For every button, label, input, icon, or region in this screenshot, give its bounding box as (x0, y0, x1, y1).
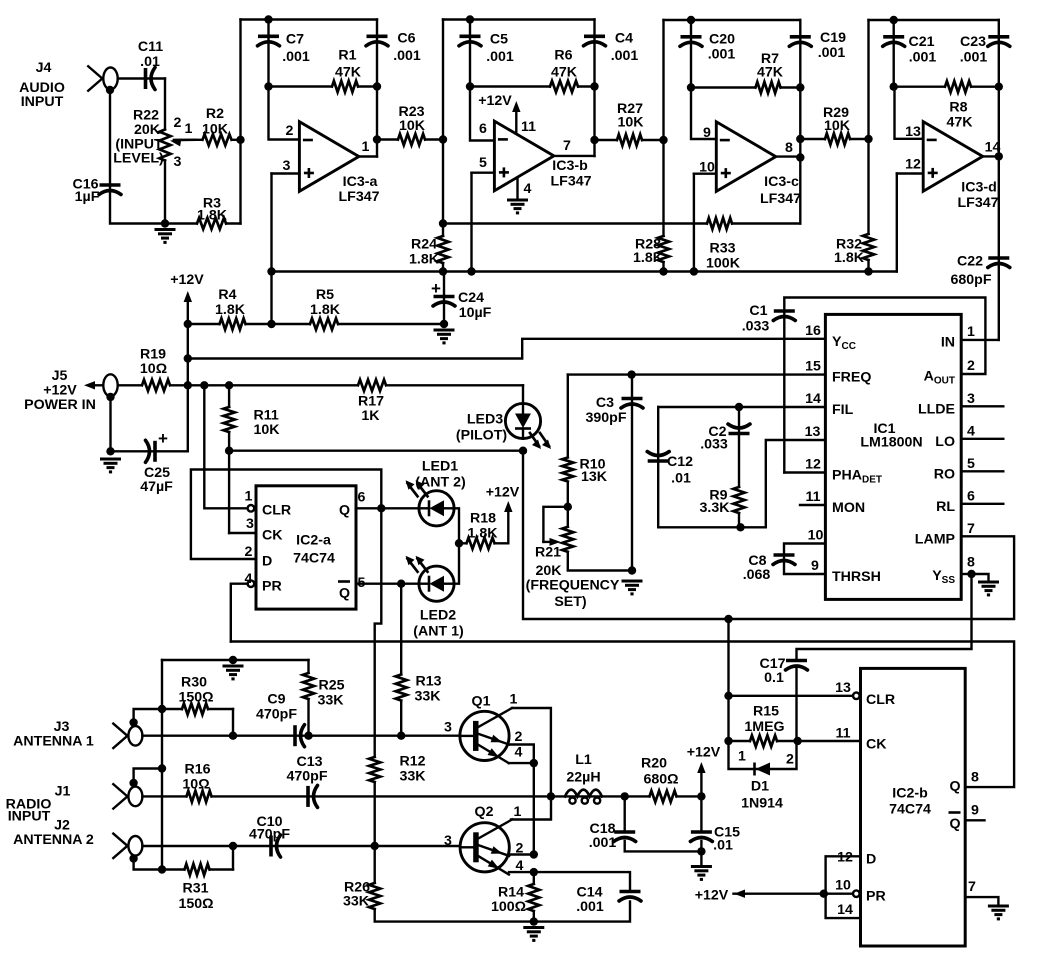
node C20/R7 junctions (687, 83, 805, 91)
wire R11/CK column (228, 385, 230, 533)
svg-text:150Ω: 150Ω (178, 690, 213, 706)
label R23 10K (398, 104, 425, 134)
svg-text:LF347: LF347 (957, 195, 998, 211)
svg-text:11: 11 (521, 119, 536, 135)
svg-text:L1: L1 (575, 752, 592, 768)
svg-text:13: 13 (905, 124, 921, 140)
pin label 9 (971, 803, 979, 819)
ground C25 (100, 459, 121, 472)
wire LED1 to R18 (454, 508, 459, 543)
svg-text:C11: C11 (138, 39, 163, 55)
wire LED2 to R18 (454, 543, 459, 583)
svg-text:.068: .068 (743, 567, 771, 583)
svg-text:10µF: 10µF (459, 305, 492, 321)
resistor R31 (185, 867, 210, 871)
wire pilot rail y450 (229, 450, 523, 452)
svg-text:10K: 10K (202, 122, 229, 138)
label LED1 (ANT 2) (415, 459, 466, 491)
label +12V stage2 (478, 93, 512, 109)
resistor R23 (398, 137, 425, 141)
svg-text:.01: .01 (713, 838, 733, 854)
wire antenna top rail (162, 659, 309, 661)
label R32 1.8K (834, 237, 865, 267)
svg-text:74C74: 74C74 (293, 551, 335, 567)
svg-text:4: 4 (967, 424, 975, 440)
svg-text:14: 14 (805, 391, 821, 407)
svg-text:R33: R33 (709, 241, 735, 257)
op-amp IC3-c (716, 122, 776, 192)
svg-text:LED2: LED2 (420, 608, 456, 624)
svg-text:SET): SET) (554, 594, 587, 610)
node J5 row junctions (184, 381, 234, 389)
label C5 .001 (486, 32, 514, 66)
label C7 .001 (282, 32, 310, 66)
wire pin3 column (270, 174, 272, 325)
wire C5 branch (469, 20, 471, 87)
svg-text:IC3-d: IC3-d (961, 180, 996, 196)
resistor R13 (399, 675, 403, 701)
wire D/PR/14 loop (826, 856, 861, 918)
wire J5 sleeve to C25 (109, 397, 111, 451)
wire R26 to bottom rail (375, 846, 630, 922)
wire R23 row (377, 138, 443, 140)
svg-text:R16: R16 (184, 762, 210, 778)
IC1 left pin numbers (805, 323, 824, 574)
wire C15 bottom (700, 841, 702, 866)
node C5/R6 junctions (466, 82, 599, 90)
wire antenna left column (161, 660, 163, 870)
resistor R20 (650, 794, 677, 798)
potentiometer R22 (163, 130, 167, 161)
resistor R12 (373, 757, 377, 782)
ground J4 area (155, 230, 176, 243)
LED1 (ant 2) (406, 480, 455, 526)
node C2 top (735, 403, 743, 411)
svg-text:47K: 47K (335, 65, 362, 81)
node C21/R8 junctions (890, 83, 1004, 91)
svg-text:680pF: 680pF (950, 272, 991, 288)
Q-bar overline IC2-b (949, 811, 961, 814)
svg-text:FIL: FIL (832, 402, 854, 418)
capacitor C19 (789, 37, 811, 47)
label LED2 (ANT 1) (413, 608, 464, 640)
svg-text:C24: C24 (458, 290, 484, 306)
label IC2-a 74C74 (293, 533, 335, 567)
resistor R15 (750, 739, 777, 743)
svg-text:IC2-a: IC2-a (296, 533, 331, 549)
label J1 RADIO INPUT (6, 784, 71, 825)
wire C12 left branch (658, 407, 766, 527)
pin label 3 (246, 516, 254, 532)
wire pin12 column (896, 174, 898, 272)
pin label 9 (703, 125, 711, 141)
label J2 ANTENNA 2 (13, 818, 94, 849)
wire Q1 gate2 (509, 745, 534, 764)
svg-text:R25: R25 (318, 678, 344, 694)
resistor R16 (187, 794, 212, 798)
svg-text:Q: Q (339, 586, 350, 602)
wire R25 column (307, 660, 309, 736)
wire output stage2 (556, 155, 594, 157)
svg-text:4: 4 (524, 181, 532, 197)
svg-text:IC2-b: IC2-b (892, 786, 928, 802)
svg-text:C20: C20 (709, 31, 735, 47)
wire J4 to C11 (118, 77, 165, 79)
svg-text:16: 16 (805, 323, 821, 339)
svg-text:1.8K: 1.8K (633, 250, 664, 266)
svg-text:C12: C12 (667, 454, 693, 470)
pin label 13 (835, 680, 851, 696)
svg-text:PR: PR (262, 579, 282, 595)
label R7 47K (757, 51, 784, 80)
ground antenna rail (223, 666, 244, 679)
svg-text:.001: .001 (611, 48, 639, 64)
LED3 (pilot) (505, 403, 551, 449)
node bias rail junctions (267, 267, 872, 275)
LED2 (ant 1) (406, 556, 455, 602)
svg-text:LO: LO (935, 434, 955, 450)
node C7/R1 junctions (264, 82, 381, 90)
wire stage2 left column (442, 20, 444, 272)
pin label 14 (837, 902, 853, 918)
wire pin10 column (693, 174, 695, 272)
svg-text:R15: R15 (753, 704, 779, 720)
label C24 10uF (458, 290, 492, 321)
resistor R2 (203, 138, 232, 142)
wire Yss pin (961, 573, 971, 575)
node bottom rail ground (530, 917, 538, 925)
node R13 bottom (397, 732, 405, 740)
node R11 bottom (225, 447, 233, 455)
label LED3 (PILOT) (456, 412, 507, 444)
node R31/J2 junction (229, 842, 237, 850)
node C21 top (890, 16, 898, 24)
node C25 ground junction (106, 447, 114, 455)
wire C3 column (631, 375, 633, 571)
capacitor C9 (295, 725, 305, 747)
svg-text:10K: 10K (254, 422, 281, 438)
label R3 1.8K (197, 196, 228, 224)
resistor R14 (532, 884, 536, 911)
label C11 .01 (138, 39, 163, 70)
wire Q1 collector (512, 708, 551, 796)
wire Q1 emitter (509, 762, 534, 764)
wire stage3 left column (662, 20, 664, 272)
svg-text:RL: RL (936, 499, 955, 515)
svg-text:10: 10 (808, 528, 824, 544)
svg-text:J4: J4 (36, 60, 52, 76)
capacitor C21 (883, 37, 905, 47)
pin label Q1 3 (444, 720, 452, 736)
node ground junction J4 area (161, 219, 169, 227)
ground IC1 Yss (978, 582, 999, 595)
inductor L1 (565, 790, 602, 797)
wire CLR row (729, 695, 853, 697)
pin label 5 (479, 155, 487, 171)
pin label 3 (283, 158, 291, 174)
node R23/R27 junction (439, 135, 447, 143)
wire R27 row (595, 139, 664, 141)
resistor R32 (866, 234, 870, 260)
wire CK row (729, 740, 861, 742)
svg-text:(FREQUENCY: (FREQUENCY (526, 578, 620, 594)
svg-text:3: 3 (283, 158, 291, 174)
node CLR row junction (724, 692, 732, 700)
label IC3-a LF347 (338, 174, 379, 205)
label IC1 LM1800N (860, 421, 922, 451)
label R1 47K (335, 48, 362, 81)
wire J3 tip stub (134, 709, 233, 723)
IC1 right stubs (LLDE LO RO RL) (961, 406, 1003, 504)
svg-text:74C74: 74C74 (889, 802, 931, 818)
wire pin12 row (784, 471, 825, 473)
wire J2 row (142, 845, 460, 847)
transistor Q2 (460, 819, 512, 874)
power arrow +12V LED (504, 501, 512, 543)
svg-text:5: 5 (967, 456, 975, 472)
svg-text:6: 6 (967, 489, 975, 505)
ground IC1 Yss stub (972, 574, 989, 581)
svg-text:+: + (431, 279, 441, 298)
svg-text:LF347: LF347 (338, 189, 379, 205)
pin label 2 (245, 544, 253, 560)
label C9 470pF (256, 692, 297, 723)
wire C2/R9 column (738, 407, 740, 527)
wire C17 column (795, 667, 797, 741)
svg-text:10: 10 (699, 160, 715, 176)
svg-text:.001: .001 (909, 50, 937, 66)
svg-text:D: D (866, 852, 876, 868)
ground bottom rail (523, 928, 544, 941)
pin label 10 (835, 878, 851, 894)
svg-text:LF347: LF347 (760, 191, 801, 207)
svg-text:3: 3 (967, 391, 975, 407)
IC1 right pin numbers (967, 324, 975, 571)
label R17 1K (358, 394, 384, 425)
wire MON stub (800, 504, 825, 506)
IC2-a pin names (262, 503, 350, 602)
svg-text:1: 1 (738, 749, 746, 765)
svg-text:C6: C6 (397, 31, 415, 47)
wire R3 row (165, 222, 241, 224)
svg-text:R30: R30 (181, 675, 207, 691)
resistor R8 (945, 85, 971, 89)
svg-text:+12V: +12V (687, 745, 721, 761)
label +12V PR (695, 888, 729, 904)
op-amp IC3-b (494, 121, 554, 191)
svg-text:Q: Q (950, 816, 961, 832)
svg-text:LED3: LED3 (467, 412, 503, 428)
svg-text:LEVEL): LEVEL) (113, 151, 164, 167)
wire R22 to ground node (164, 161, 166, 224)
pin label 2 (286, 123, 294, 139)
svg-text:.001: .001 (486, 49, 514, 65)
pin label 10 (699, 160, 715, 176)
wire pin5 column (470, 173, 472, 272)
svg-text:5: 5 (358, 575, 366, 591)
wire C8 loop (784, 544, 825, 575)
node C15/C18 junction (697, 847, 705, 855)
svg-text:14: 14 (837, 902, 853, 918)
jack J2 (antenna 2) (112, 833, 142, 859)
label C2 .033 (700, 424, 728, 453)
svg-text:.033: .033 (742, 319, 770, 335)
svg-text:470pF: 470pF (249, 827, 290, 843)
wire R29 row (800, 138, 868, 140)
label R9 3.3K (700, 488, 731, 517)
wire pin5 branch (472, 171, 495, 173)
pin bubble IC2-a PR (248, 580, 255, 587)
power arrow +12V main (184, 291, 192, 324)
svg-text:470pF: 470pF (256, 707, 297, 723)
svg-text:12: 12 (837, 850, 853, 866)
wire J5 row (118, 384, 523, 386)
label R21 20K (FREQUENCY SET) (526, 545, 620, 611)
pin label 4 (245, 571, 253, 587)
svg-text:1µF: 1µF (75, 189, 100, 205)
svg-text:ANTENNA 1: ANTENNA 1 (13, 734, 94, 750)
pin label 12 (837, 850, 853, 866)
wire J1 tip stub (134, 769, 162, 784)
svg-text:2: 2 (786, 752, 794, 768)
label C18 .001 (589, 821, 617, 851)
pin label 7 (968, 879, 976, 895)
pin label 11 (521, 119, 536, 135)
label R4 1.8K (215, 287, 246, 318)
node +12V feed (184, 320, 192, 328)
svg-text:13: 13 (835, 680, 851, 696)
wire C18 bottom (625, 841, 702, 851)
IC IC1 box (825, 314, 961, 599)
wire R2 row (174, 139, 241, 141)
svg-text:2: 2 (245, 544, 253, 560)
label R29 10K (823, 105, 851, 134)
label R5 1.8K (310, 287, 341, 318)
node C24 bottom (440, 320, 448, 328)
wire stage1 top rail (241, 18, 378, 20)
svg-text:RO: RO (934, 467, 955, 483)
wire C7 branch (267, 20, 269, 87)
node C17 bottom (793, 737, 801, 745)
svg-text:C22: C22 (957, 254, 983, 270)
svg-text:R18: R18 (470, 511, 496, 527)
resistor R24 (441, 236, 445, 263)
svg-text:3: 3 (444, 833, 452, 849)
label C19 .001 (818, 30, 846, 61)
svg-text:1: 1 (185, 121, 193, 137)
wire R4 R5 row (188, 323, 444, 325)
wiper bracket R21 (543, 507, 567, 542)
pin label Q1 1 (510, 692, 518, 708)
label J3 ANTENNA 1 (13, 719, 94, 750)
svg-text:IC3-c: IC3-c (764, 174, 799, 190)
resistor R33 (707, 221, 732, 225)
label R25 33K (317, 678, 344, 709)
wire Q row to LED1 (356, 507, 419, 509)
label C23 .001 (960, 34, 988, 66)
label R31 150ohm (178, 881, 213, 913)
node rail223 left (439, 219, 447, 227)
wire PR row IC2-b (734, 893, 853, 895)
svg-text:33K: 33K (317, 693, 344, 709)
label R13 33K (414, 674, 441, 705)
capacitor C15 (690, 832, 712, 842)
wire Q2 gate2 (509, 853, 534, 855)
label C8 .068 (743, 553, 771, 583)
wire C11 to R22 (164, 79, 166, 130)
node C3 bottom ground (628, 566, 636, 574)
label C20 .001 (708, 31, 736, 62)
pin bubble IC2-b PR (853, 890, 860, 897)
node J3 tip (129, 718, 137, 726)
svg-text:7: 7 (968, 879, 976, 895)
svg-text:15: 15 (805, 359, 821, 375)
svg-text:C4: C4 (615, 31, 633, 47)
svg-text:.001: .001 (818, 45, 846, 61)
ground C24 (434, 330, 455, 343)
svg-text:LM1800N: LM1800N (860, 435, 922, 451)
pin label Q2 2 (516, 841, 524, 857)
pin label 8 (971, 770, 979, 786)
wire R30 right drop (232, 709, 234, 736)
wire bias rail y271 (272, 270, 897, 272)
wire PR row (231, 584, 248, 642)
label C3 390pF (585, 395, 626, 426)
label R24 1.8K (409, 237, 440, 268)
node output stage2 (590, 136, 598, 144)
wire Yss to C17 (797, 574, 972, 660)
node R25 bottom (304, 732, 312, 740)
wire Q1 gates column (533, 763, 535, 854)
svg-text:ANTENNA 2: ANTENNA 2 (13, 832, 94, 848)
svg-text:Q2: Q2 (475, 804, 494, 820)
svg-text:.01: .01 (140, 54, 160, 70)
svg-text:.001: .001 (960, 50, 988, 66)
label R16 10ohm (182, 762, 210, 793)
IC2-b pin names (866, 692, 961, 905)
wire D1 loop (729, 741, 797, 769)
svg-text:Q1: Q1 (472, 694, 491, 710)
node output stage3 (796, 135, 804, 162)
svg-text:680Ω: 680Ω (643, 772, 678, 788)
pin bubble IC2-b CLR (853, 693, 860, 700)
wire C23/output column stage4 (998, 20, 1000, 340)
svg-text:+12V: +12V (478, 93, 512, 109)
svg-text:CLR: CLR (262, 503, 291, 519)
capacitor C12 (647, 452, 669, 462)
power arrow +12V R20 (697, 762, 705, 796)
svg-text:C1: C1 (749, 303, 767, 319)
label C24 plus (431, 279, 441, 298)
capacitor C2 (728, 424, 750, 434)
node output stage4 (995, 152, 1003, 160)
resistor R27 (617, 138, 642, 142)
label +12V R20 (687, 745, 721, 761)
svg-text:2: 2 (515, 729, 523, 745)
svg-text:47K: 47K (757, 64, 784, 80)
label R30 150ohm (178, 675, 213, 706)
svg-text:C5: C5 (490, 32, 508, 48)
resistor R18 (467, 541, 495, 545)
wire C1 column (784, 298, 985, 473)
label J5 +12V POWER IN (24, 368, 96, 413)
capacitor C23 (988, 37, 1010, 47)
pin labels R22 2 1 3 (174, 115, 193, 170)
svg-text:3: 3 (174, 154, 182, 170)
label IC2-b 74C74 (889, 786, 931, 818)
ground pin 4 stage2 (507, 200, 528, 213)
svg-text:R21: R21 (535, 545, 561, 561)
